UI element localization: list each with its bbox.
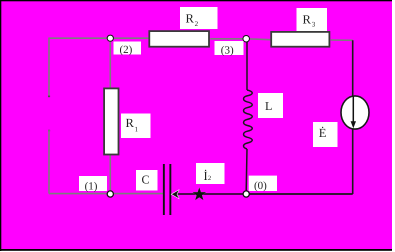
capacitor C plate left bbox=[163, 164, 165, 215]
left rail gap end cap top bbox=[48, 96, 50, 98]
wire: left rail upper segment bbox=[48, 38, 50, 98]
wire: bottom rail right (node 0 to corner, black) bbox=[246, 193, 353, 195]
I2 arrowhead halo bbox=[171, 189, 180, 199]
left rail gap end cap bottom bbox=[48, 130, 50, 132]
label box node (0) bbox=[249, 176, 277, 191]
svg-text:L: L bbox=[265, 99, 272, 113]
label box I2 bbox=[196, 163, 225, 184]
svg-text:R: R bbox=[186, 11, 195, 25]
star marker (black) on I2 wire bbox=[194, 189, 205, 199]
wire: top rail left (node1 corner to R2) bbox=[49, 37, 149, 39]
svg-text:R: R bbox=[303, 12, 312, 26]
frame border top bbox=[0, 0, 392, 1]
label box E bbox=[313, 122, 338, 147]
label box R1 bbox=[121, 114, 151, 139]
svg-text:3: 3 bbox=[312, 21, 316, 29]
wire: L branch top lead (black) bbox=[246, 40, 248, 90]
star halo on I2 wire bbox=[192, 187, 206, 200]
wire: left rail lower segment bbox=[48, 130, 50, 194]
svg-text:(0): (0) bbox=[254, 180, 267, 192]
svg-text:2: 2 bbox=[208, 175, 211, 182]
wire: I2 arrow shaft (capacitor to node 0, black) bbox=[172, 193, 246, 195]
inductor L coil bbox=[244, 90, 253, 149]
wire: L branch bottom lead (black) bbox=[245, 149, 248, 191]
frame border left bbox=[0, 0, 1, 251]
wire: bottom rail left (corner to capacitor) bbox=[49, 193, 164, 195]
current source E circle bbox=[341, 96, 369, 129]
svg-text:1: 1 bbox=[135, 125, 139, 133]
resistor R3 body bbox=[271, 32, 329, 47]
frame border bottom bbox=[0, 249, 392, 251]
svg-text:C: C bbox=[142, 173, 150, 187]
node (0) bbox=[243, 191, 249, 197]
wire: R3 to top-right corner bbox=[331, 39, 353, 41]
svg-text:2: 2 bbox=[195, 20, 199, 28]
wire: right rail vertical (black) bbox=[352, 40, 354, 194]
svg-text:(1): (1) bbox=[85, 180, 98, 192]
label box R3 bbox=[297, 8, 328, 31]
node (1) bbox=[107, 191, 113, 197]
resistor R2 body bbox=[149, 31, 209, 47]
wire: node(3) to R3 bbox=[246, 38, 271, 41]
svg-text:(2): (2) bbox=[120, 44, 133, 56]
svg-text:(3): (3) bbox=[221, 45, 234, 57]
svg-text:Ė: Ė bbox=[319, 126, 327, 140]
node (3) bbox=[243, 35, 250, 42]
current source arrow shaft bbox=[352, 97, 354, 123]
current source arrowhead (down) bbox=[351, 121, 356, 128]
resistor R1 body bbox=[104, 88, 118, 154]
node (2) bbox=[107, 35, 113, 41]
I2 arrowhead (filled dart pointing left) bbox=[172, 190, 179, 198]
capacitor C plate right bbox=[169, 164, 171, 215]
label box L bbox=[258, 93, 283, 118]
svg-text:R: R bbox=[126, 116, 135, 130]
label box node (2) bbox=[114, 42, 142, 55]
label box R2 bbox=[180, 7, 218, 29]
wire: R1 top lead bbox=[109, 38, 111, 88]
label box C bbox=[136, 170, 158, 191]
label box node (3) bbox=[215, 41, 244, 55]
wire: top rail R2 to node(3) bbox=[210, 38, 246, 40]
wire: R1 bottom lead bbox=[109, 155, 111, 195]
label box node (1) bbox=[79, 176, 107, 191]
